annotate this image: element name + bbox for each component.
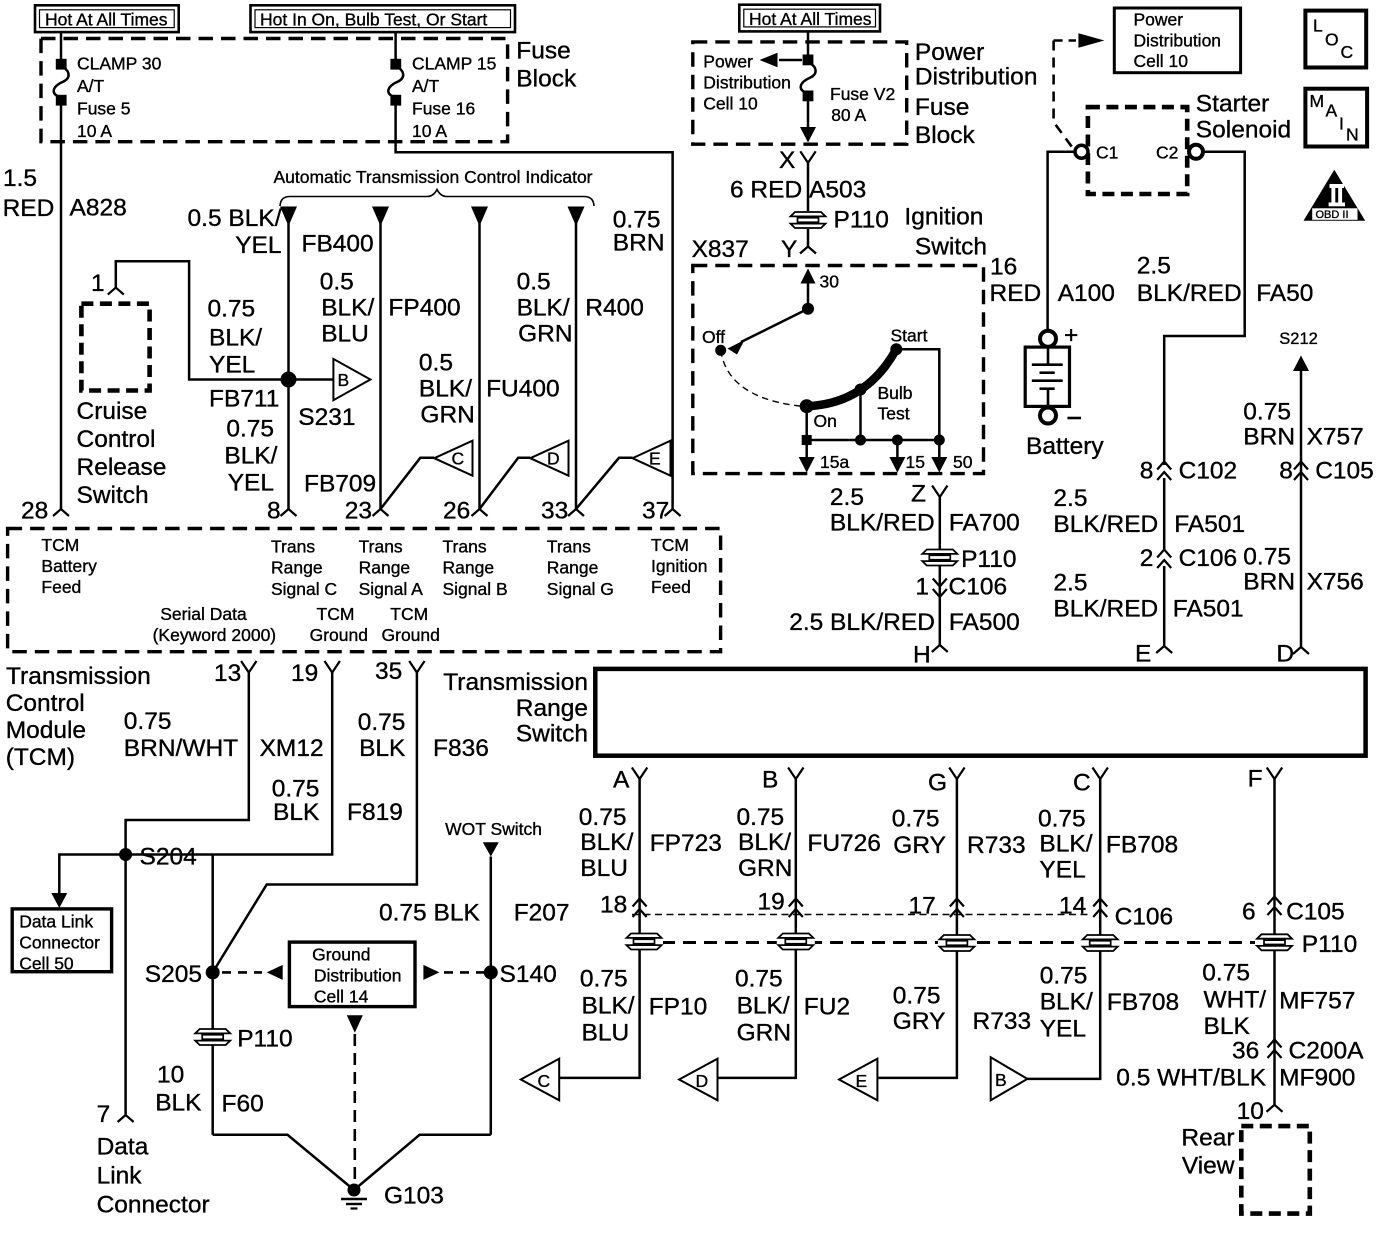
indicator arrow 1 and wire to TCM pin 8 — [280, 207, 297, 227]
svg-text:GRN: GRN — [420, 402, 474, 429]
solenoid terminal C2 — [1156, 143, 1203, 163]
svg-text:BLK: BLK — [155, 1090, 202, 1117]
arrow at fuse block bottom edge — [800, 127, 816, 143]
svg-text:Fuse: Fuse — [915, 94, 969, 121]
dashed link Ground Distribution box to S140 with arrow — [423, 965, 484, 980]
svg-text:Range: Range — [271, 558, 323, 578]
arrow to Power Distribution Cell 10 (internal) — [760, 53, 803, 67]
svg-text:BLK/RED: BLK/RED — [1137, 280, 1242, 307]
svg-text:D: D — [547, 449, 560, 469]
svg-text:Signal A: Signal A — [359, 579, 424, 599]
svg-text:Transmission: Transmission — [443, 669, 588, 696]
svg-text:GRN: GRN — [518, 321, 572, 348]
svg-text:FA50: FA50 — [1256, 280, 1313, 307]
svg-text:BLK/: BLK/ — [1040, 989, 1093, 1016]
svg-text:C106: C106 — [1115, 904, 1174, 931]
wire label 2.5 BLK/RED FA50 — [1137, 253, 1314, 308]
svg-text:1.5: 1.5 — [3, 165, 37, 192]
TCM pin 28 — [21, 498, 69, 525]
splice P110 on MF757 (col F) — [1256, 931, 1358, 958]
svg-text:Power: Power — [915, 39, 984, 66]
connector C106 pin 19 — [758, 889, 803, 918]
svg-text:BRN: BRN — [613, 230, 665, 257]
svg-text:A/T: A/T — [412, 76, 440, 96]
wire label 0.75 GRY R733 — [892, 806, 1026, 860]
wire C106 to range switch pin E (FA501) — [1163, 566, 1166, 646]
svg-text:FU400: FU400 — [486, 376, 560, 403]
transmission range switch box — [595, 669, 1365, 756]
svg-text:C106: C106 — [949, 574, 1008, 601]
svg-text:D: D — [1276, 641, 1294, 668]
svg-text:YEL: YEL — [1039, 857, 1085, 884]
svg-text:Distribution: Distribution — [1134, 31, 1222, 51]
splice P110 on S205 ground wire — [194, 1026, 293, 1053]
svg-text:19: 19 — [291, 660, 318, 687]
off-page triangle E (bottom) — [839, 1059, 877, 1101]
svg-text:E: E — [1135, 641, 1151, 668]
wire from Hot In On box into fuse 16 — [394, 32, 397, 60]
svg-text:Trans: Trans — [547, 537, 591, 557]
range switch pin G — [928, 768, 965, 797]
connector C102 pin 8 — [1140, 458, 1237, 485]
svg-text:Signal B: Signal B — [443, 579, 508, 599]
svg-text:BLK/: BLK/ — [419, 376, 472, 403]
fuse block pin X — [779, 147, 816, 174]
wire pin B down (FU726/FU2) — [716, 779, 796, 1078]
svg-text:P110: P110 — [961, 546, 1016, 573]
off-page triangle B (bottom, right-pointing) — [991, 1057, 1028, 1100]
svg-text:0.75: 0.75 — [208, 296, 256, 323]
splice P110 on FA700 — [921, 546, 1017, 573]
svg-text:CLAMP 30: CLAMP 30 — [77, 54, 162, 74]
TCM dashed box — [8, 529, 721, 652]
svg-text:A/T: A/T — [77, 76, 105, 96]
svg-text:S140: S140 — [500, 961, 557, 988]
WOT Switch label and arrow — [445, 819, 542, 857]
svg-text:P110: P110 — [834, 207, 889, 234]
wire label 2.5 BLK/RED FA501 — [1053, 485, 1245, 538]
indicator arrow 3 and wire to TCM pin 26 — [471, 207, 488, 227]
svg-text:36: 36 — [1232, 1038, 1259, 1065]
svg-text:Switch: Switch — [915, 234, 987, 261]
svg-text:BLK: BLK — [1204, 1013, 1251, 1040]
svg-text:TCM: TCM — [390, 604, 428, 624]
svg-text:YEL: YEL — [228, 470, 274, 497]
svg-text:Bulb: Bulb — [878, 383, 913, 403]
wire label 1.5 RED A828 — [3, 165, 127, 222]
ignition rotor pivot dot — [802, 303, 814, 315]
svg-text:15a: 15a — [820, 452, 849, 472]
svg-text:6 RED: 6 RED — [730, 177, 802, 204]
svg-text:BLK/RED: BLK/RED — [1053, 511, 1158, 538]
wire label 0.75 BLK/ BLU FP10 — [580, 966, 707, 1047]
svg-text:Cell 14: Cell 14 — [314, 987, 369, 1007]
splice P110 dashed bus — [662, 941, 1255, 944]
svg-text:Control: Control — [77, 426, 156, 453]
svg-text:BLK/RED: BLK/RED — [830, 510, 935, 537]
svg-text:E: E — [856, 1071, 868, 1091]
svg-text:S205: S205 — [145, 961, 202, 988]
connector C200A pin 36 — [1232, 1038, 1364, 1065]
svg-text:M: M — [1310, 91, 1325, 111]
range switch pin B — [762, 767, 804, 794]
wire P110 to pin Y — [807, 229, 810, 247]
wire label 0.75 BLK F836 — [358, 709, 489, 762]
svg-text:0.75: 0.75 — [580, 966, 628, 993]
svg-text:Trans: Trans — [443, 537, 487, 557]
off-page triangle C (bottom) — [521, 1059, 559, 1101]
transmission range switch name label — [443, 669, 588, 748]
svg-text:BLK: BLK — [359, 735, 406, 762]
svg-text:WOT Switch: WOT Switch — [445, 819, 542, 839]
arrow into Data Link Connector box — [51, 893, 67, 908]
svg-text:8: 8 — [1140, 458, 1154, 485]
svg-text:BLU: BLU — [582, 1020, 630, 1047]
svg-text:F: F — [1248, 766, 1263, 793]
svg-text:C105: C105 — [1315, 458, 1374, 485]
svg-text:6: 6 — [1242, 899, 1256, 926]
svg-text:14: 14 — [1059, 893, 1086, 920]
wire label 0.75 BRN X756 — [1243, 544, 1364, 596]
arrow below Ground Distribution box — [347, 1015, 363, 1032]
svg-text:Transmission: Transmission — [6, 663, 151, 690]
internal label Power Distribution Cell 10 — [703, 52, 791, 114]
wire label 0.5 WHT/BLK MF900 — [1116, 1065, 1355, 1092]
svg-text:(Keyword 2000): (Keyword 2000) — [153, 625, 277, 645]
cruise control pin 1 — [91, 270, 124, 297]
svg-text:Range: Range — [359, 558, 411, 578]
ignition switch pin Y — [781, 236, 816, 263]
svg-text:FP723: FP723 — [650, 830, 722, 857]
svg-text:Switch: Switch — [77, 482, 149, 509]
TCM internal label: Serial Data (Keyword 2000) — [153, 604, 277, 645]
svg-text:Cell 50: Cell 50 — [19, 954, 74, 974]
TCM internal label: Trans Range Signal C — [271, 537, 337, 600]
wire label 0.5 BLK/ GRN (R400) — [517, 269, 573, 348]
svg-text:Block: Block — [915, 122, 976, 149]
TCM pin 19 — [291, 660, 340, 687]
terminal 50 arrow — [931, 440, 972, 473]
svg-text:2.5: 2.5 — [1053, 485, 1087, 512]
splice S205 junction dot — [206, 965, 220, 979]
svg-text:Hot In On, Bulb Test, Or Start: Hot In On, Bulb Test, Or Start — [260, 10, 487, 30]
svg-text:BRN: BRN — [1243, 424, 1295, 451]
svg-text:YEL: YEL — [1040, 1016, 1086, 1043]
fuse V2 80 A — [801, 55, 895, 126]
svg-text:B: B — [762, 767, 778, 794]
svg-text:(TCM): (TCM) — [6, 744, 75, 771]
svg-text:0.5 BLK/: 0.5 BLK/ — [188, 205, 282, 232]
svg-text:BLK/: BLK/ — [738, 829, 791, 856]
wire C102 to C106 (FA501) — [1163, 478, 1166, 549]
svg-text:0.75: 0.75 — [124, 708, 172, 735]
svg-text:Starter: Starter — [1196, 91, 1270, 118]
svg-text:MF757: MF757 — [1279, 988, 1355, 1015]
wire pin35 down-left-diagonal to S205 — [213, 673, 417, 973]
splice P110 on FU2 (col B) — [777, 933, 815, 950]
svg-text:Switch: Switch — [516, 721, 588, 748]
range switch pin A — [613, 767, 647, 794]
TCM pin 13 — [214, 660, 257, 687]
svg-text:Battery: Battery — [41, 556, 97, 576]
TCM pin 35 — [375, 658, 425, 685]
wire label 10 BLK F60 — [155, 1062, 264, 1118]
wire label 0.75 BLK/ GRN FU726 — [737, 804, 881, 882]
wire cruise pin1 to splice S231 — [116, 261, 282, 379]
svg-text:FB708: FB708 — [1106, 832, 1178, 859]
ignition switch dashed box — [693, 266, 984, 474]
TCM pin 23 with riser to triangle C — [345, 458, 435, 525]
svg-text:2.5 BLK/RED: 2.5 BLK/RED — [789, 609, 935, 636]
svg-text:Fuse: Fuse — [516, 38, 570, 65]
svg-text:Link: Link — [97, 1163, 143, 1190]
heavy contact arc On-BulbTest-Start — [807, 349, 897, 406]
wire fuse5 down to pin 28 (A828) — [60, 105, 63, 509]
TCM internal label: TCM Ground (pin 19) — [310, 604, 368, 645]
svg-text:WHT/: WHT/ — [1204, 987, 1267, 1014]
wire label 0.75 BRN/WHT XM12 — [124, 708, 324, 762]
wire label 0.75 BLK F207 — [379, 900, 570, 927]
svg-text:FB400: FB400 — [302, 231, 374, 258]
svg-text:C102: C102 — [1179, 458, 1238, 485]
svg-text:BLU: BLU — [321, 321, 369, 348]
svg-text:0.5: 0.5 — [320, 269, 354, 296]
svg-text:Module: Module — [6, 717, 86, 744]
svg-text:Power: Power — [1134, 10, 1184, 30]
svg-text:35: 35 — [375, 658, 402, 685]
terminal 15a arrow — [799, 440, 850, 473]
svg-text:Test: Test — [878, 404, 910, 424]
dashed link S205 to Ground Distribution box with arrow — [222, 965, 283, 980]
wire C1 to battery positive (A100) — [1048, 152, 1075, 331]
svg-text:C2: C2 — [1156, 143, 1178, 163]
power distribution fuse block dashed box — [693, 42, 907, 144]
svg-text:R733: R733 — [973, 1008, 1032, 1035]
svg-text:BLK/: BLK/ — [582, 993, 635, 1020]
svg-text:X837: X837 — [692, 236, 749, 263]
wire label 6 RED A503 — [730, 177, 866, 204]
svg-text:YEL: YEL — [209, 352, 255, 379]
svg-text:C: C — [538, 1071, 551, 1091]
Off terminal label and dot — [702, 327, 726, 356]
svg-text:YEL: YEL — [235, 232, 281, 259]
svg-text:1: 1 — [91, 270, 105, 297]
svg-text:On: On — [814, 411, 837, 431]
rear view dashed box — [1241, 1126, 1310, 1214]
TCM name label: Transmission Control Module (TCM) — [6, 663, 151, 771]
svg-text:Feed: Feed — [651, 577, 691, 597]
off-page triangle B (right) — [333, 359, 370, 400]
svg-text:2: 2 — [1140, 545, 1154, 572]
pin 7 Data Link Connector — [97, 1101, 134, 1128]
wire X to P110 — [807, 163, 810, 211]
svg-text:BLK: BLK — [273, 799, 320, 826]
cruise control release switch label — [77, 398, 167, 509]
svg-text:FA500: FA500 — [949, 609, 1020, 636]
svg-text:GRY: GRY — [893, 1008, 946, 1035]
svg-text:2.5: 2.5 — [830, 484, 864, 511]
svg-text:Distribution: Distribution — [314, 966, 402, 986]
wire pin C down (FB708) — [1027, 779, 1100, 1079]
svg-text:TCM: TCM — [651, 535, 689, 555]
svg-text:C105: C105 — [1286, 899, 1345, 926]
svg-text:Signal G: Signal G — [547, 579, 614, 599]
splice P110 on FB708 (col C) — [1081, 935, 1119, 952]
wire label 0.75 BRN X757 — [1243, 399, 1364, 451]
svg-text:15: 15 — [906, 452, 925, 472]
svg-text:Battery: Battery — [1026, 433, 1104, 460]
connector C106 pin 17 — [909, 893, 964, 920]
Data Link Connector Cell 50 box — [12, 909, 111, 974]
connector C106 pin 14 — [1059, 893, 1173, 931]
svg-text:Distribution: Distribution — [915, 64, 1038, 91]
svg-text:F819: F819 — [347, 799, 403, 826]
node: Automatic Transmission Control Indicator brace — [273, 167, 594, 206]
svg-text:0.5: 0.5 — [419, 350, 453, 377]
svg-text:80 A: 80 A — [831, 105, 866, 125]
connector C106 pin 2 — [1140, 545, 1237, 572]
off-page triangle C (top) — [434, 441, 472, 476]
ignition terminal 30 arrow and wire — [801, 269, 840, 310]
svg-text:Z: Z — [911, 481, 926, 508]
svg-text:N: N — [1346, 125, 1359, 145]
svg-text:Fuse 5: Fuse 5 — [77, 99, 131, 119]
fuse block name label — [516, 38, 577, 93]
range switch pin C — [1073, 768, 1108, 797]
svg-text:0.5: 0.5 — [517, 269, 551, 296]
ignition switch name label — [904, 204, 987, 261]
svg-text:8: 8 — [267, 498, 281, 525]
ignition internal wires to bottom bus — [805, 406, 808, 440]
svg-text:Range: Range — [443, 558, 495, 578]
wire label 16 RED A100 — [990, 254, 1115, 308]
svg-text:RED: RED — [990, 280, 1042, 307]
off-page triangle D (bottom) — [679, 1059, 717, 1101]
svg-text:BLU: BLU — [580, 855, 628, 882]
wire dot to triangle B — [296, 378, 333, 381]
svg-text:TCM: TCM — [317, 604, 355, 624]
dashed reference wire with arrow into Cell 10 box — [1054, 33, 1105, 147]
solenoid terminal C1 — [1075, 143, 1118, 163]
svg-text:+: + — [1064, 322, 1078, 349]
svg-text:Trans: Trans — [271, 537, 315, 557]
wire label 0.75 WHT/ BLK MF757 — [1202, 960, 1355, 1041]
svg-text:F836: F836 — [433, 735, 489, 762]
fuse block dashed box — [41, 39, 508, 142]
wire pin A to C106-18 and P110 (FP723/FP10) — [559, 779, 639, 1078]
svg-text:C: C — [1341, 42, 1354, 62]
svg-text:Solenoid: Solenoid — [1196, 117, 1291, 144]
svg-text:C: C — [1073, 770, 1091, 797]
svg-text:0.75 BLK: 0.75 BLK — [379, 900, 480, 927]
svg-text:C: C — [452, 449, 465, 469]
TCM internal label: Trans Range Signal B — [443, 537, 508, 600]
range switch pin H — [913, 642, 948, 669]
svg-text:GRN: GRN — [738, 855, 792, 882]
power distribution fuse block name label — [915, 39, 1038, 149]
svg-text:13: 13 — [214, 660, 241, 687]
wire label 0.75 BLK/ BLU FP723 — [579, 804, 722, 882]
svg-text:OBD II: OBD II — [1316, 209, 1349, 221]
splice P110 on FP10 (col A) — [625, 933, 663, 950]
wire label 0.75 BLK/ YEL FB708 (lower) — [1040, 963, 1179, 1043]
svg-text:Hot At All Times: Hot At All Times — [45, 10, 168, 30]
TCM pin 26 with riser to triangle D — [443, 458, 530, 525]
svg-text:FA501: FA501 — [1174, 511, 1245, 538]
svg-text:BLK/RED: BLK/RED — [1053, 596, 1158, 623]
svg-text:H: H — [913, 642, 931, 669]
TCM internal label: Trans Range Signal A — [359, 537, 424, 600]
label box "Hot At All Times" (left) — [35, 5, 179, 32]
svg-text:CLAMP 15: CLAMP 15 — [412, 54, 496, 74]
svg-text:View: View — [1182, 1153, 1235, 1180]
connector C106 pin 1 — [915, 574, 1007, 601]
indicator arrow 4 and wire to TCM pin 33 — [568, 207, 585, 227]
svg-text:BLK/: BLK/ — [321, 295, 374, 322]
svg-text:F60: F60 — [222, 1091, 264, 1118]
TCM pin 8 — [267, 498, 297, 525]
Ground Distribution Cell 14 box — [289, 942, 415, 1007]
arc end dots — [800, 399, 814, 413]
svg-text:RED: RED — [3, 195, 55, 222]
svg-text:Connector: Connector — [19, 933, 100, 953]
svg-text:Ignition: Ignition — [651, 556, 707, 576]
svg-text:FB709: FB709 — [304, 471, 376, 498]
wire label 0.75 BLK/ YEL FB711 — [208, 296, 280, 413]
fuse CLAMP 30 A/T Fuse 5 10 A — [54, 54, 162, 142]
wire pin G down (R733) — [879, 779, 957, 1078]
svg-text:0.75: 0.75 — [1243, 399, 1291, 426]
svg-text:37: 37 — [642, 498, 669, 525]
wire label 0.75 BLK/ YEL FB708 — [1038, 806, 1178, 884]
svg-text:Feed: Feed — [41, 577, 81, 597]
connector C105 pin 8 — [1279, 458, 1373, 485]
MAIN reference box — [1305, 89, 1367, 147]
svg-text:Data Link: Data Link — [19, 912, 93, 932]
svg-text:Ground: Ground — [310, 625, 368, 645]
Data Link Connector name label — [97, 1134, 210, 1219]
ground symbol G103 — [341, 1183, 444, 1210]
svg-text:2.5: 2.5 — [1137, 253, 1171, 280]
range switch pin F — [1248, 766, 1283, 793]
svg-text:FB708: FB708 — [1107, 989, 1179, 1016]
ignition pin Z — [911, 481, 948, 508]
wire label 2.5 BLK/RED FA500 — [789, 609, 1020, 636]
svg-text:BLK/: BLK/ — [737, 993, 790, 1020]
svg-text:Start: Start — [891, 326, 928, 346]
wire label 0.75 BLK/ YEL FB709 — [224, 416, 277, 497]
svg-text:I: I — [1339, 114, 1344, 134]
wire pin F down (MF757/MF900) to Rear View pin 10 — [1273, 779, 1276, 1105]
WOT switch wire down to ground funnel — [490, 857, 493, 1135]
svg-text:X757: X757 — [1307, 424, 1364, 451]
splice P110 on R733 (col G) — [938, 935, 976, 952]
svg-text:Range: Range — [547, 558, 599, 578]
fuse CLAMP 15 A/T Fuse 16 10 A — [388, 54, 496, 142]
svg-text:C200A: C200A — [1289, 1038, 1365, 1065]
svg-text:1: 1 — [915, 574, 929, 601]
range switch pin E — [1135, 641, 1172, 668]
splice S204 junction dot — [119, 848, 132, 861]
OBD II badge — [1304, 170, 1366, 221]
svg-text:Hot At All Times: Hot At All Times — [749, 9, 872, 29]
svg-text:G103: G103 — [384, 1183, 444, 1210]
TCM pin 33 with riser to triangle E — [541, 458, 633, 525]
svg-text:P110: P110 — [1302, 931, 1357, 958]
svg-text:X: X — [779, 147, 795, 174]
wire C2 right and down (FA50) with jog — [1164, 152, 1245, 465]
svg-text:Range: Range — [516, 695, 588, 722]
